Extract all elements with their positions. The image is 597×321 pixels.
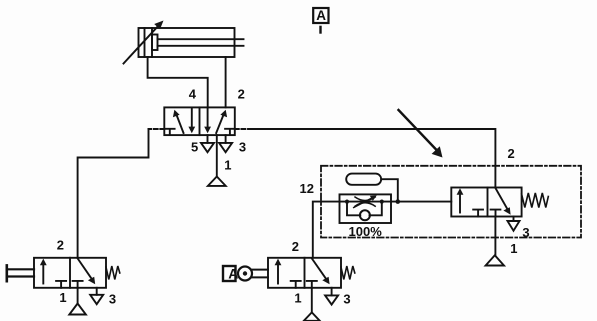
valve V2 left box blocked T [56, 281, 66, 288]
valve V2 spring [106, 266, 120, 280]
cylinder C1 piston rod [158, 38, 244, 40]
valve V2 3/2 body [34, 258, 106, 288]
reservoir [346, 174, 381, 185]
svg-text:A: A [228, 266, 238, 282]
svg-text:2: 2 [508, 146, 515, 161]
valve V1 right pilot dashes [235, 128, 248, 130]
marker A box [313, 8, 328, 23]
svg-text:1: 1 [224, 158, 231, 173]
valve V3 left box blocked T [291, 281, 301, 288]
svg-text:3: 3 [239, 140, 246, 155]
wire V1 left pilot to valve V2 port 2 [78, 129, 149, 258]
valve V2 left box arrow 1 to 2 [42, 263, 44, 284]
svg-text:3: 3 [343, 291, 350, 306]
cylinder C1 end cap line [144, 28, 146, 57]
valve V1 exhaust port 3 stem [225, 135, 227, 143]
valve V1 left box arrow 1 to 4 [176, 114, 183, 133]
valve V3 right box blocked T [307, 281, 317, 288]
svg-text:100%: 100% [349, 224, 383, 239]
valve V4 exhaust stem port 3 [513, 217, 515, 222]
valve V1 right box arrow 1 to 2 [216, 114, 224, 133]
cylinder C1 body [139, 28, 235, 57]
valve V2 plunger actuator [6, 265, 9, 281]
valve V2 supply triangle [69, 304, 86, 315]
svg-text:1: 1 [294, 291, 301, 306]
valve V1 exhaust triangle port 3 [219, 143, 232, 152]
valve V3 supply triangle [304, 312, 320, 320]
cylinder C1 piston [151, 28, 153, 57]
valve V3 right box arrow 2 to 3 [312, 258, 327, 280]
valve V1 supply triangle [208, 177, 226, 186]
valve V3 3/2 body [268, 258, 341, 288]
valve V4 left box blocked T [473, 210, 483, 217]
marker A tick [319, 27, 321, 33]
wire pilot 12 from valve V3 port 2 [313, 202, 340, 258]
cylinder C1 cushion boss [152, 35, 158, 51]
valve V3 divider [304, 258, 306, 288]
valve V1 port 1 line [216, 135, 218, 176]
svg-text:2: 2 [292, 239, 299, 254]
wire flow control to valve V4 pilot [391, 201, 451, 203]
valve V3 stem lines [252, 269, 268, 271]
wire cylinder left port to valve V1 port 4 [148, 57, 208, 107]
svg-text:A: A [316, 8, 326, 23]
valve V2 exhaust stem port 3 [96, 288, 98, 295]
valve V4 port 1 line [494, 217, 496, 256]
valve V1 exhaust port 5 stem [207, 135, 209, 143]
svg-text:12: 12 [300, 181, 314, 196]
valve V1 left box arrow 2 to 3 [191, 108, 193, 128]
flow control outer box [340, 194, 392, 223]
valve V1 divider [199, 107, 201, 135]
flow control check valve bypass line [347, 202, 360, 216]
svg-text:3: 3 [109, 291, 116, 306]
cylinder C1 cushion adjust arrow [124, 25, 160, 64]
flow control branch dots [345, 200, 349, 204]
valve V3 left box arrow 1 to 2 [277, 263, 279, 284]
valve V4 right box blocked T [491, 210, 501, 217]
svg-text:1: 1 [510, 241, 517, 256]
valve V2 exhaust triangle [90, 295, 103, 304]
valve V4 3/2 body [451, 188, 521, 217]
valve V4 spring [522, 193, 549, 208]
wire V1 right pilot to valve V4 port 2 [248, 129, 495, 188]
valve V1 left pilot dashes [149, 128, 165, 130]
valve V3 spring [341, 266, 355, 280]
valve V2 port 1 line [77, 288, 79, 304]
valve V3 exhaust triangle [325, 295, 338, 304]
flow control adjust arrow [354, 198, 373, 208]
valve V3 roller label box A [223, 266, 236, 281]
valve V2 right box arrow 2 to 3 [78, 258, 93, 280]
svg-text:2: 2 [238, 86, 245, 101]
valve V2 right box blocked T [73, 281, 83, 288]
valve V1 exhaust triangle port 5 [201, 143, 214, 152]
valve V2 divider [69, 258, 71, 288]
big arrow pointing at timer box [399, 110, 439, 152]
valve V1 right box arrow 4 to 5 [207, 108, 209, 128]
wire cylinder right port to valve V1 port 2 [225, 57, 227, 107]
svg-text:2: 2 [57, 238, 64, 253]
valve V4 divider [487, 188, 489, 217]
svg-text:1: 1 [59, 290, 66, 305]
valve V4 right box arrow 2 to 3 [495, 188, 508, 211]
svg-text:4: 4 [189, 86, 197, 101]
valve V3 exhaust stem port 3 [331, 288, 333, 296]
wire reservoir to junction [381, 179, 398, 201]
valve V4 exhaust triangle [508, 221, 520, 231]
svg-text:5: 5 [191, 140, 198, 155]
flow control throttle arcs [355, 197, 375, 201]
flow control check valve ball [360, 210, 370, 220]
valve V4 left box arrow 1 to 2 [459, 193, 461, 213]
valve V1 left box blocked port T [165, 129, 175, 135]
valve V1 5/2 body [164, 107, 235, 135]
svg-text:3: 3 [522, 225, 529, 240]
flow control through line [340, 201, 392, 203]
junction dot [396, 199, 401, 204]
timer dashed box [321, 166, 581, 238]
valve V3 port 1 line [311, 288, 313, 313]
valve V1 right box blocked port T [225, 129, 235, 135]
valve V4 supply triangle [486, 255, 504, 265]
valve V3 roller [238, 267, 252, 281]
